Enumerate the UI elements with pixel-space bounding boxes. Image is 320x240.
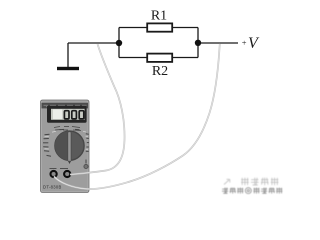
wire top branch right	[172, 27, 199, 29]
multimeter function labels row	[54, 127, 81, 131]
multimeter 10A jack	[84, 160, 88, 169]
multimeter rotary dial	[55, 131, 84, 164]
resistor R1	[147, 23, 172, 31]
node A (left junction)	[116, 40, 122, 46]
wire right stub vertical	[197, 28, 199, 58]
wire main right horizontal	[198, 42, 238, 44]
wire bottom branch right	[172, 57, 199, 59]
multimeter LCD	[51, 109, 85, 120]
wire ground stem vertical	[67, 43, 69, 67]
wire bottom branch left	[119, 57, 148, 59]
svg-text:R1: R1	[151, 8, 167, 23]
knob pointer	[68, 132, 71, 162]
resistor R2	[147, 54, 172, 62]
multimeter jack labels	[50, 168, 69, 170]
multimeter jack VΩmA	[64, 171, 70, 177]
wire: ground stem and main left wire	[68, 28, 238, 68]
wire: probe lead from right jack to left node	[70, 44, 125, 175]
svg-text:+: +	[242, 37, 247, 47]
node B (right junction)	[195, 40, 201, 46]
watermark line 1	[241, 178, 279, 186]
multimeter top strip	[42, 103, 89, 109]
wire left stub vertical	[118, 28, 120, 58]
svg-text:R2: R2	[152, 64, 168, 79]
watermark line 2	[222, 188, 282, 194]
ground	[57, 67, 79, 70]
multimeter display bezel	[47, 106, 87, 123]
multimeter dial scale markings	[43, 129, 89, 156]
svg-text:DT-830B: DT-830B	[43, 185, 62, 190]
watermark	[222, 178, 282, 194]
wire top branch left	[119, 27, 148, 29]
wire: probe lead from left jack to right node	[54, 44, 220, 189]
wire main left horizontal	[68, 42, 119, 44]
watermark arrow mark	[224, 179, 230, 184]
LCD reading 000	[64, 111, 83, 119]
multimeter body	[41, 100, 90, 193]
svg-text:V: V	[248, 35, 260, 52]
multimeter jack COM	[51, 171, 57, 177]
